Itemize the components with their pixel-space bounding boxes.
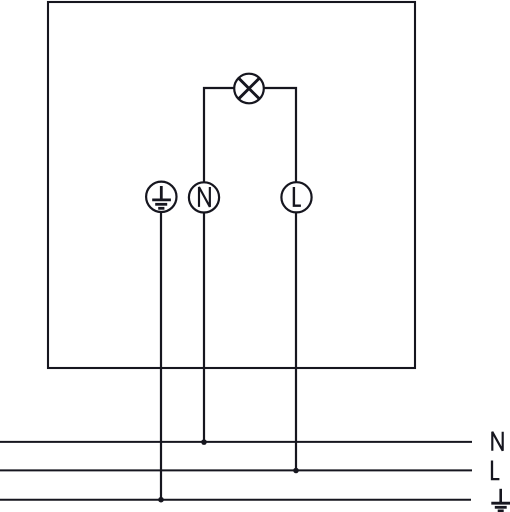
wire lamp left to N terminal <box>204 88 234 182</box>
earth symbol bottom right stem <box>499 489 502 502</box>
terminal N letter <box>199 187 210 207</box>
junction dot PE wire / PE bus <box>158 497 164 503</box>
junction dot L wire / L bus <box>293 468 299 474</box>
wire PE terminal down to earth bus <box>160 212 162 500</box>
wire L terminal down to L bus <box>295 212 297 470</box>
L bus line <box>0 469 472 471</box>
label N bus <box>492 432 502 451</box>
lamp E1 cross <box>239 78 259 98</box>
terminal PE earth bar 3 <box>158 207 164 210</box>
lamp E1 circle <box>234 74 264 104</box>
terminal PE earth bar 1 <box>152 198 171 201</box>
terminal PE earth bar 2 <box>155 203 167 206</box>
PE bus line <box>0 499 471 501</box>
device box (sensor housing outline) <box>48 2 415 368</box>
earth symbol bottom right bar 1 <box>491 502 510 505</box>
N bus line <box>0 441 472 443</box>
label L bus <box>492 461 499 480</box>
earth symbol bottom right bar 3 <box>498 509 504 512</box>
terminal N circle <box>189 182 219 212</box>
terminal L letter <box>294 187 301 206</box>
junction dot N wire / N bus <box>201 439 207 445</box>
terminal PE circle <box>146 182 176 212</box>
terminal PE earth symbol stem <box>160 186 163 200</box>
terminal L circle <box>281 182 311 212</box>
wire N terminal down to N bus <box>203 213 205 443</box>
wire lamp right to L terminal <box>264 88 296 182</box>
earth symbol bottom right bar 2 <box>495 506 507 509</box>
